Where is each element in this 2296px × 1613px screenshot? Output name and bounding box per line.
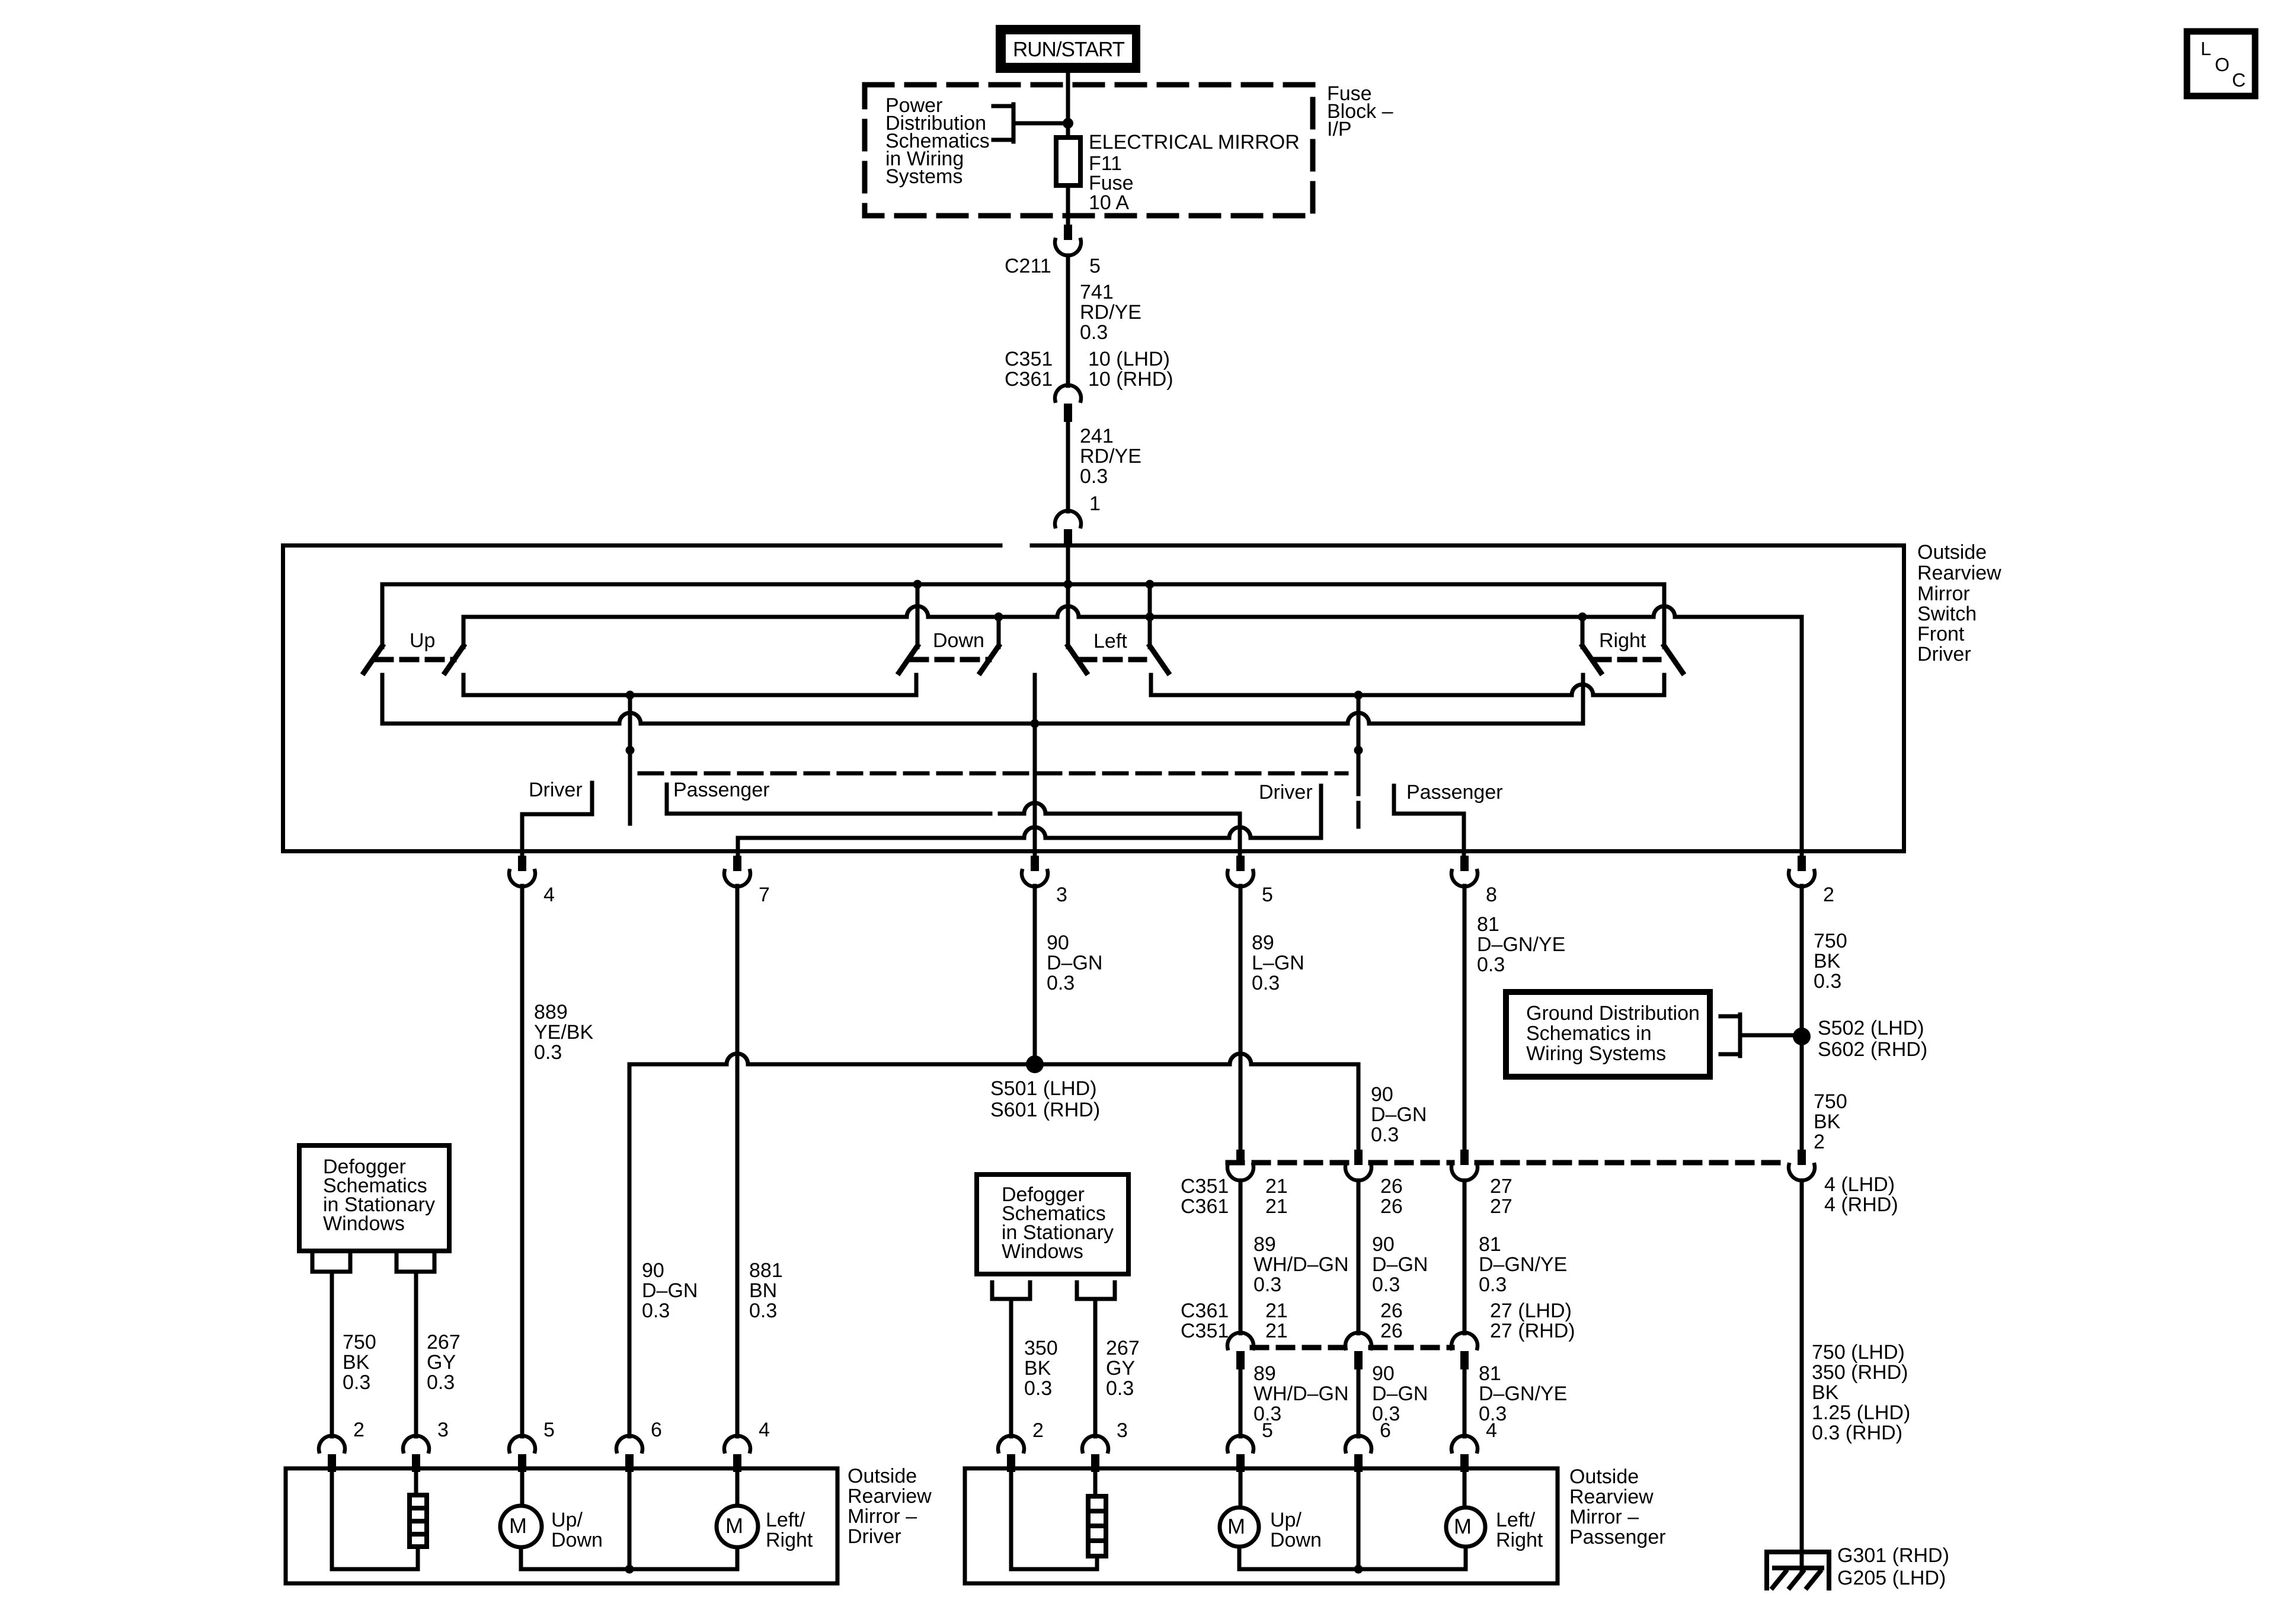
wire 267 GY to driver mirror pin3	[414, 1272, 418, 1436]
svg-text:89: 89	[1252, 932, 1274, 954]
svg-text:BN: BN	[749, 1279, 777, 1302]
svg-text:Passenger: Passenger	[673, 779, 770, 801]
connector C361/C351 row2 at x2292	[1345, 1333, 1371, 1369]
label switch pin 3	[1056, 884, 1067, 906]
svg-text:21: 21	[1265, 1300, 1288, 1322]
svg-text:S602 (RHD): S602 (RHD)	[1818, 1038, 1927, 1061]
wire passenger pin6 to bus	[1357, 1470, 1361, 1569]
junction dot rail4 tap lower	[626, 746, 635, 755]
label row1 pin 21 21	[1265, 1175, 1288, 1218]
svg-text:D–GN: D–GN	[642, 1279, 698, 1302]
label pin 5	[1089, 255, 1101, 277]
svg-text:ELECTRICAL MIRROR: ELECTRICAL MIRROR	[1089, 131, 1300, 153]
wire 881 BN pin7 to driver mirror	[736, 886, 740, 1436]
svg-text:5: 5	[1262, 1419, 1273, 1442]
label Up/Down (passenger)	[1270, 1509, 1322, 1551]
svg-text:YE/BK: YE/BK	[534, 1021, 593, 1044]
switch Right linkage dashed	[1594, 657, 1659, 663]
bracket Driver to pin 7	[738, 786, 1321, 856]
label passenger mirror pin 2	[1032, 1419, 1044, 1442]
svg-text:0.3: 0.3	[1047, 972, 1075, 994]
bracket Driver to pin 4	[522, 783, 592, 856]
wire 267 GY to passenger mirror pin3	[1093, 1299, 1098, 1436]
wire rail1 bus with Up/Right pole corners	[382, 584, 1664, 647]
svg-text:D–GN/YE: D–GN/YE	[1477, 933, 1565, 956]
svg-text:C361: C361	[1181, 1300, 1229, 1322]
bracket ground note to wire	[1721, 1014, 1794, 1056]
svg-text:Up/: Up/	[1270, 1509, 1302, 1531]
svg-text:26: 26	[1380, 1300, 1403, 1322]
svg-text:89: 89	[1253, 1362, 1276, 1385]
label pins 10 LHD 10 RHD	[1088, 348, 1173, 391]
dashed connector line row2	[1252, 1345, 1452, 1350]
switch Down right blade	[980, 646, 999, 673]
svg-text:Passenger: Passenger	[1406, 781, 1503, 804]
label circuit 750 BK 0.3 (driver defog)	[343, 1331, 376, 1394]
svg-text:WH/D–GN: WH/D–GN	[1253, 1253, 1349, 1276]
svg-text:741: 741	[1080, 281, 1114, 303]
svg-text:Driver: Driver	[529, 779, 583, 801]
wire rail5 bus	[1151, 675, 1664, 695]
dashed connector line row1	[1228, 1160, 1789, 1166]
svg-text:2: 2	[1032, 1419, 1044, 1442]
svg-text:4 (RHD): 4 (RHD)	[1824, 1193, 1898, 1216]
bracket Passenger to pin 5	[667, 785, 1240, 856]
junction dot rail1 jumper	[1146, 580, 1155, 589]
wire 350 BK to passenger mirror pin2	[1009, 1299, 1013, 1436]
svg-text:27 (RHD): 27 (RHD)	[1490, 1320, 1575, 1342]
svg-text:D–GN: D–GN	[1372, 1382, 1428, 1405]
svg-text:1.25 (LHD): 1.25 (LHD)	[1812, 1401, 1910, 1424]
wire driver defogger return loop	[332, 1470, 418, 1569]
switch Left label	[1093, 630, 1127, 652]
fuse block dashed box Fuse Block - I/P	[865, 85, 1313, 216]
wire 241 RD/YE	[1066, 422, 1070, 511]
label Driver (left)	[529, 779, 583, 801]
wire rail5 tap down	[1357, 695, 1361, 770]
connector C351/C361 row1 at x3040	[1789, 1150, 1815, 1180]
svg-text:Driver: Driver	[848, 1525, 901, 1548]
svg-text:750: 750	[343, 1331, 376, 1353]
label circuit 90 D-GN 0.3 (mid)	[1372, 1233, 1428, 1296]
svg-text:D–GN: D–GN	[1371, 1103, 1427, 1126]
svg-text:750: 750	[1814, 930, 1847, 952]
svg-text:0.3: 0.3	[1479, 1273, 1507, 1296]
switch Down label	[933, 629, 984, 652]
svg-text:0.3: 0.3	[427, 1371, 455, 1394]
svg-text:C: C	[2232, 69, 2246, 91]
power feed symbol RUN/START	[1000, 29, 1136, 69]
svg-text:O: O	[2215, 54, 2230, 75]
svg-text:Rearview: Rearview	[1917, 562, 2001, 584]
wire Down switch left pole	[916, 584, 920, 647]
svg-text:D–GN/YE: D–GN/YE	[1479, 1382, 1567, 1405]
wire driver defogger to loop	[416, 1547, 420, 1569]
motor M left/right (driver)	[717, 1506, 758, 1547]
junction dot rail1 feed	[1064, 580, 1073, 589]
svg-text:0.3: 0.3	[1252, 972, 1280, 994]
defogger element (passenger mirror)	[1088, 1496, 1106, 1556]
bracket from power distribution note to wire	[993, 104, 1064, 142]
svg-text:M: M	[1454, 1514, 1472, 1538]
connector switch pin 4	[509, 856, 535, 886]
svg-text:90: 90	[1372, 1362, 1395, 1385]
wire 750 BK pin2 down	[1800, 886, 1804, 1150]
svg-text:D–GN: D–GN	[1047, 952, 1102, 974]
svg-text:0.3: 0.3	[1253, 1273, 1281, 1296]
svg-text:0.3: 0.3	[642, 1300, 670, 1322]
label ELECTRICAL MIRROR F11 Fuse 10 A	[1089, 131, 1300, 214]
wire passenger pin4 to motor	[1463, 1470, 1467, 1508]
junction dot rail5 tap	[1354, 691, 1363, 700]
svg-text:3: 3	[437, 1419, 449, 1441]
label switch pin 7	[759, 884, 770, 906]
wire 90 D-GN mid	[1357, 1180, 1361, 1333]
svg-text:Front: Front	[1917, 623, 1965, 645]
wire rail4 bus	[463, 675, 916, 695]
svg-text:BK: BK	[1814, 950, 1841, 972]
label switch pin 8	[1486, 884, 1497, 906]
wire Right switch left pole	[1581, 617, 1585, 647]
switch Up left blade	[364, 646, 382, 673]
svg-text:90: 90	[1371, 1083, 1393, 1106]
svg-text:L: L	[2201, 38, 2211, 59]
label C351 C361	[1005, 348, 1053, 391]
svg-text:Outside: Outside	[1917, 541, 1987, 564]
junction dot driver motor bus	[625, 1565, 634, 1574]
label driver mirror pin 5	[543, 1419, 555, 1441]
svg-text:Up: Up	[410, 629, 435, 652]
junction dot rail4 tap	[626, 691, 635, 700]
wire 750 BK to driver mirror pin2	[330, 1272, 334, 1436]
label circuit 81 D-GN/YE 0.3 (mid)	[1479, 1233, 1567, 1296]
label switch pin 5	[1262, 884, 1273, 906]
connector driver mirror pin 3	[403, 1436, 429, 1472]
label Outside Rearview Mirror Switch Front Driver	[1917, 541, 2001, 665]
wire driver pin3 to defogger	[414, 1470, 418, 1495]
svg-text:8: 8	[1486, 884, 1497, 906]
svg-text:4 (LHD): 4 (LHD)	[1824, 1173, 1895, 1196]
label Passenger (left)	[673, 779, 770, 801]
label C211	[1005, 255, 1051, 277]
label Outside Rearview Mirror Driver	[848, 1465, 932, 1548]
label driver mirror pin 4	[759, 1419, 770, 1441]
wire 89 L-GN pin5 down	[1239, 886, 1243, 1150]
wire 90 D-GN lower	[1357, 1369, 1361, 1436]
svg-text:750 (LHD): 750 (LHD)	[1812, 1341, 1905, 1364]
connector switch pin 3	[1022, 856, 1048, 886]
switch Down left blade	[899, 646, 917, 673]
label Outside Rearview Mirror Passenger	[1569, 1465, 1666, 1548]
label passenger mirror pin 3	[1117, 1419, 1128, 1442]
wire passenger motor1 to bus	[1237, 1547, 1242, 1569]
defogger note box (driver)	[299, 1145, 449, 1251]
svg-text:0.3: 0.3	[534, 1041, 562, 1064]
junction dot rail1 Down pole	[913, 580, 922, 589]
svg-text:10 (LHD): 10 (LHD)	[1088, 348, 1170, 370]
defogger element (driver mirror)	[410, 1495, 427, 1547]
svg-text:0.3: 0.3	[1477, 953, 1505, 976]
label circuit 750 BK 2	[1814, 1090, 1847, 1153]
switch Right left blade	[1582, 646, 1601, 673]
motor M up/down (passenger)	[1220, 1508, 1259, 1547]
label G301 G205	[1837, 1544, 1949, 1589]
svg-text:889: 889	[534, 1001, 568, 1023]
defogger bracket right (driver)	[396, 1253, 434, 1272]
wire 81 D-GN/YE mid	[1463, 1180, 1467, 1333]
svg-text:Systems: Systems	[885, 165, 962, 188]
connector switch pin 1	[1055, 511, 1081, 548]
wire rail3 common bus	[382, 675, 1583, 724]
svg-text:BK: BK	[1812, 1381, 1839, 1404]
junction dot rail3 pin3	[1031, 719, 1040, 728]
connector switch pin 8	[1451, 856, 1478, 886]
svg-text:2: 2	[353, 1419, 364, 1441]
svg-text:750: 750	[1814, 1090, 1847, 1113]
connector passenger mirror pin 6	[1345, 1436, 1371, 1472]
svg-text:81: 81	[1479, 1362, 1501, 1385]
wire 750/350 BK to ground	[1800, 1180, 1804, 1570]
label Driver (right)	[1259, 781, 1313, 804]
svg-text:G301 (RHD): G301 (RHD)	[1837, 1544, 1949, 1567]
outside rearview mirror driver box outline	[286, 1468, 837, 1583]
fuse F11 ELECTRICAL MIRROR 10 A	[1056, 137, 1080, 185]
svg-text:Driver: Driver	[1917, 643, 1971, 665]
svg-text:WH/D–GN: WH/D–GN	[1253, 1382, 1349, 1405]
junction dot rail2 Right left pole	[1578, 613, 1587, 622]
connector driver mirror pin 2	[319, 1436, 345, 1472]
svg-text:M: M	[509, 1513, 527, 1538]
svg-text:C351: C351	[1005, 348, 1053, 370]
svg-text:GY: GY	[1106, 1357, 1135, 1380]
connector passenger mirror pin 2	[998, 1436, 1024, 1472]
label row1 pin 4 LHD RHD	[1824, 1173, 1898, 1216]
label circuit 881 BN 0.3	[749, 1259, 783, 1322]
svg-text:Outside: Outside	[848, 1465, 917, 1487]
wire rail4 tap down	[628, 695, 632, 801]
switch Left linkage dashed	[1080, 657, 1144, 663]
svg-text:S502 (LHD): S502 (LHD)	[1818, 1017, 1924, 1039]
label circuit 90 D-GN 0.3 (driver up/down)	[642, 1259, 698, 1322]
outside rearview mirror switch box outline	[283, 546, 1904, 852]
svg-text:Schematics in: Schematics in	[1526, 1022, 1652, 1045]
label passenger mirror pin 6	[1380, 1419, 1391, 1442]
connector passenger mirror pin 4	[1451, 1436, 1478, 1472]
wire 89 WH/D-GN lower	[1239, 1369, 1243, 1436]
svg-text:Ground Distribution: Ground Distribution	[1526, 1002, 1700, 1025]
wire passenger pin3 to defogger	[1093, 1470, 1098, 1496]
svg-text:3: 3	[1117, 1419, 1128, 1442]
svg-text:26: 26	[1380, 1195, 1403, 1218]
connector C351/C361 row1 at x2292	[1345, 1150, 1371, 1180]
ground G301/G205	[1767, 1552, 1829, 1588]
label row1 pin 26 26	[1380, 1175, 1403, 1218]
svg-text:D–GN/YE: D–GN/YE	[1479, 1253, 1567, 1276]
label circuit 350 BK 0.3	[1024, 1337, 1058, 1400]
svg-text:10 A: 10 A	[1089, 191, 1129, 214]
connector driver mirror pin 6	[616, 1436, 642, 1472]
svg-text:Mirror: Mirror	[1917, 583, 1970, 605]
svg-text:90: 90	[1372, 1233, 1395, 1256]
svg-text:6: 6	[651, 1419, 662, 1441]
svg-text:26: 26	[1380, 1320, 1403, 1342]
svg-text:Switch: Switch	[1917, 603, 1977, 625]
label circuit 81 D-GN/YE 0.3 (lower)	[1479, 1362, 1567, 1425]
label circuit 90 D-GN 0.3 (pin3)	[1047, 932, 1102, 994]
wire driver pin4 to motor	[736, 1470, 740, 1506]
junction dot rail2 Down right pole	[994, 613, 1003, 622]
svg-text:Down: Down	[933, 629, 984, 652]
wire driver motor2 to bus	[736, 1547, 740, 1569]
svg-text:90: 90	[642, 1259, 664, 1282]
wire feed pole from pin 1	[1066, 548, 1070, 647]
svg-text:27: 27	[1490, 1195, 1512, 1218]
connector C351/C361 row1 at x2471	[1451, 1150, 1478, 1180]
svg-text:881: 881	[749, 1259, 783, 1282]
svg-text:G205 (LHD): G205 (LHD)	[1837, 1567, 1946, 1589]
wire 741 RD/YE	[1066, 255, 1070, 386]
label circuit 750 BK 0.3	[1814, 930, 1847, 993]
wire passenger motor bus	[1239, 1567, 1466, 1572]
label Fuse Block - I/P	[1327, 82, 1393, 140]
wire common contact to pin 3	[1033, 675, 1037, 856]
svg-text:0.3: 0.3	[1080, 321, 1108, 344]
svg-text:89: 89	[1253, 1233, 1276, 1256]
svg-text:21: 21	[1265, 1195, 1288, 1218]
svg-text:Rearview: Rearview	[1569, 1486, 1654, 1508]
wire driver motor1 to bus	[519, 1547, 523, 1569]
label switch pin 2	[1823, 884, 1834, 906]
svg-text:Left/: Left/	[766, 1509, 805, 1531]
svg-text:C351: C351	[1181, 1320, 1229, 1342]
svg-text:Right: Right	[766, 1529, 813, 1551]
connector switch pin 5	[1227, 856, 1253, 886]
svg-text:Wiring Systems: Wiring Systems	[1526, 1042, 1666, 1065]
label circuit 89 WH/D-GN 0.3 (lower)	[1253, 1362, 1349, 1425]
wire Down switch right pole	[997, 617, 1001, 647]
label Up/Down (driver)	[551, 1509, 603, 1551]
svg-text:267: 267	[427, 1331, 461, 1353]
svg-text:Left: Left	[1093, 630, 1127, 652]
svg-text:Windows: Windows	[323, 1212, 405, 1235]
svg-text:21: 21	[1265, 1175, 1288, 1198]
label circuit 750 350 BK 1.25 0.3	[1812, 1341, 1910, 1444]
svg-text:2: 2	[1823, 884, 1834, 906]
svg-text:0.3: 0.3	[1372, 1273, 1400, 1296]
switch Up label	[410, 629, 435, 652]
wire 89 WH/D-GN mid	[1239, 1180, 1243, 1333]
svg-text:Passenger: Passenger	[1569, 1526, 1666, 1548]
location code box L O C	[2187, 31, 2255, 96]
junction dot at fuse feed	[1063, 118, 1073, 129]
switch Left left blade	[1068, 646, 1086, 673]
wire rail4 tap dashed	[628, 801, 632, 830]
switch Down linkage dashed	[912, 657, 989, 663]
junction dot passenger motor bus	[1354, 1565, 1363, 1574]
svg-text:S501 (LHD): S501 (LHD)	[990, 1077, 1097, 1100]
svg-text:0.3: 0.3	[1106, 1377, 1134, 1400]
svg-text:BK: BK	[1024, 1357, 1051, 1380]
wire 81 D-GN/YE lower	[1463, 1369, 1467, 1436]
svg-text:C361: C361	[1005, 368, 1053, 391]
wire driver pin6 to bus	[628, 1470, 632, 1569]
defogger bracket left (passenger)	[992, 1282, 1030, 1299]
svg-text:27 (LHD): 27 (LHD)	[1490, 1300, 1572, 1322]
svg-text:GY: GY	[427, 1351, 456, 1374]
svg-text:10 (RHD): 10 (RHD)	[1088, 368, 1173, 391]
wire 90 D-GN pin3 to splice S501	[1033, 886, 1037, 1064]
svg-text:81: 81	[1479, 1233, 1501, 1256]
label row2 pin 26 26	[1380, 1300, 1403, 1342]
svg-text:Outside: Outside	[1569, 1465, 1639, 1488]
svg-text:Mirror –: Mirror –	[848, 1505, 917, 1528]
connector C361/C351 row2 at x2093	[1227, 1333, 1253, 1369]
svg-text:0.3: 0.3	[1371, 1124, 1399, 1146]
svg-text:6: 6	[1380, 1419, 1391, 1442]
label circuit 90 D-GN 0.3 (splice to passenger)	[1371, 1083, 1427, 1146]
svg-text:90: 90	[1047, 932, 1069, 954]
svg-text:BK: BK	[343, 1351, 370, 1374]
svg-text:I/P: I/P	[1327, 118, 1352, 140]
label C361 C351 row2	[1181, 1300, 1229, 1342]
label circuit 889 YE/BK 0.3	[534, 1001, 593, 1064]
connector C351/C361 row1 at x2093	[1227, 1150, 1253, 1180]
connector driver mirror pin 5	[509, 1436, 535, 1472]
label circuit 90 D-GN 0.3 (lower)	[1372, 1362, 1428, 1425]
label passenger mirror pin 5	[1262, 1419, 1273, 1442]
label Left/Right (driver)	[766, 1509, 813, 1551]
label pin 1	[1089, 492, 1101, 515]
wire driver motor bus	[521, 1567, 737, 1572]
svg-text:4: 4	[759, 1419, 770, 1441]
connector C361/C351 row2 at x2471	[1451, 1333, 1478, 1369]
svg-text:267: 267	[1106, 1337, 1140, 1359]
svg-text:Down: Down	[1270, 1529, 1322, 1551]
svg-text:5: 5	[1262, 884, 1273, 906]
label row2 pin 21 21	[1265, 1300, 1288, 1342]
label C351 C361 row1	[1181, 1175, 1229, 1218]
wire 81 D-GN/YE pin8 down	[1463, 886, 1467, 1150]
svg-text:Rearview: Rearview	[848, 1485, 932, 1508]
defogger bracket left (driver)	[312, 1253, 350, 1272]
svg-text:Right: Right	[1496, 1529, 1543, 1551]
svg-text:RD/YE: RD/YE	[1080, 301, 1141, 324]
svg-text:S601 (RHD): S601 (RHD)	[990, 1099, 1100, 1121]
svg-text:D–GN: D–GN	[1372, 1253, 1428, 1276]
connector driver mirror pin 4	[724, 1436, 750, 1472]
defogger bracket right (passenger)	[1077, 1282, 1115, 1299]
wire rail1-rail2 jumper pole	[1148, 584, 1152, 647]
svg-text:Up/: Up/	[551, 1509, 583, 1531]
bracket Passenger to pin 8	[1394, 786, 1464, 856]
svg-text:RD/YE: RD/YE	[1080, 445, 1141, 468]
label driver mirror pin 2	[353, 1419, 364, 1441]
svg-text:Driver: Driver	[1259, 781, 1313, 804]
svg-text:BK: BK	[1814, 1110, 1841, 1133]
label Left/Right (passenger)	[1496, 1509, 1543, 1551]
svg-text:0.3: 0.3	[749, 1300, 777, 1322]
wire splice S501/S601 bus	[629, 1054, 1358, 1436]
svg-text:26: 26	[1380, 1175, 1403, 1198]
svg-text:350: 350	[1024, 1337, 1058, 1359]
wire driver pin5 to motor	[520, 1470, 525, 1506]
label circuit 741 RD/YE 0.3	[1080, 281, 1141, 344]
svg-text:C351: C351	[1181, 1175, 1229, 1198]
svg-text:1: 1	[1089, 492, 1101, 515]
wire rail5 tap dashed	[1357, 770, 1361, 831]
dashed divider line LHD/RHD	[639, 772, 1347, 776]
svg-text:350 (RHD): 350 (RHD)	[1812, 1361, 1908, 1384]
